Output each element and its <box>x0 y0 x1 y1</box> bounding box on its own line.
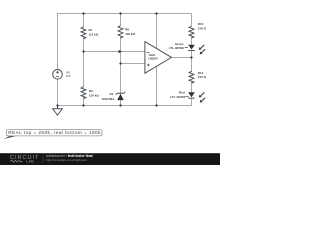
svg-text:LAB: LAB <box>26 160 34 164</box>
svg-text:100 kΩ: 100 kΩ <box>125 32 136 36</box>
svg-text:150 kΩ: 150 kΩ <box>89 93 100 97</box>
svg-text:1N4733A: 1N4733A <box>102 97 116 101</box>
svg-text:112 kΩ: 112 kΩ <box>89 32 99 36</box>
svg-text:9 V: 9 V <box>66 74 70 78</box>
svg-text:150 Ω: 150 Ω <box>198 75 207 79</box>
svg-text:LTL-307EE: LTL-307EE <box>170 95 185 99</box>
svg-text:150 Ω: 150 Ω <box>198 26 207 30</box>
svg-text:R1: R1 <box>89 28 93 32</box>
svg-text:http://circuitlab.com/c/gt6nye: http://circuitlab.com/c/gt6nyek <box>46 158 87 162</box>
svg-text:CIRCUIT: CIRCUIT <box>10 155 39 161</box>
svg-text:LM324: LM324 <box>148 56 158 60</box>
svg-text:LTL-307EE: LTL-307EE <box>169 46 184 50</box>
svg-text:REAL top = 260k, real bottom =: REAL top = 260k, real bottom = 180k <box>8 130 101 135</box>
svg-text:R2: R2 <box>89 89 93 93</box>
svg-text:D1: D1 <box>110 92 114 96</box>
svg-text:R6: R6 <box>125 27 129 31</box>
